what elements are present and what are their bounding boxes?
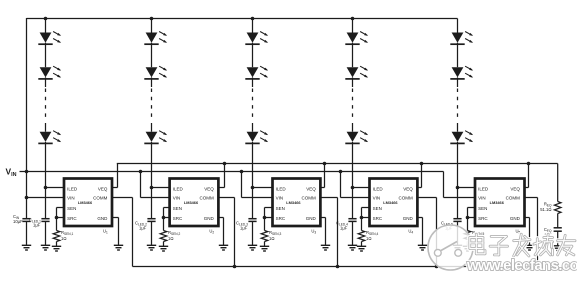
label U4 (408, 228, 413, 234)
wire COMM bus (133, 266, 538, 268)
svg-text:GND: GND (510, 216, 521, 221)
wire COMM pin U2 (218, 198, 234, 267)
wire ILED U1 (46, 187, 65, 189)
LED D3.2 (245, 66, 268, 79)
wire SRC to RSEN U1 (56, 218, 58, 231)
node VIN rail junction U2 (139, 170, 143, 174)
svg-text:COMM: COMM (302, 196, 316, 201)
node VIN junction U1 (25, 196, 29, 200)
node ILED junction U4 (351, 186, 355, 190)
svg-text:SEN: SEN (373, 206, 382, 211)
ground U5 GND (525, 245, 534, 250)
wire LED string 5 cathode to ILED (457, 142, 459, 188)
label U1 (103, 228, 108, 234)
svg-text:LM3466: LM3466 (184, 200, 199, 205)
IC U3 LM3466 (273, 179, 321, 227)
svg-text:1Ω: 1Ω (61, 236, 66, 241)
resistor RSEN,5 1ohm (464, 230, 484, 242)
wire (45, 77, 47, 87)
wire ILED U5 (458, 187, 476, 189)
wire COMM pin U3 (320, 198, 337, 267)
svg-text:VEQ: VEQ (403, 187, 413, 192)
wire dashed (more LEDs) string 3 (252, 89, 254, 122)
ground CLED,1 (41, 245, 50, 250)
svg-text:VEQ: VEQ (510, 187, 520, 192)
node VEQ bus junction U4 (420, 162, 424, 166)
wire (457, 221, 459, 245)
svg-text:VEQ: VEQ (98, 187, 108, 192)
node VEQ bus junction U2 (223, 162, 227, 166)
LED D2.2 (144, 66, 167, 79)
wire (151, 221, 153, 245)
LED D5.3 (450, 131, 473, 144)
node ILED junction U1 (44, 186, 48, 190)
wire (151, 123, 153, 132)
wire SEN pin U3 (265, 208, 273, 218)
wire SRC pin U5 (468, 217, 476, 219)
svg-text:ILED: ILED (373, 187, 384, 192)
svg-text:SRC: SRC (173, 216, 183, 221)
wire (457, 123, 459, 132)
ground RSEN,2 (159, 246, 168, 251)
capacitor CIN 10uF (13, 214, 31, 224)
wire LED string 4 cathode to ILED (352, 142, 354, 188)
LED D4.1 (345, 32, 368, 45)
wire (264, 242, 266, 247)
wire COMM pin U4 (417, 198, 436, 267)
wire SRC to RSEN U3 (264, 218, 266, 231)
svg-text:SEN: SEN (478, 206, 487, 211)
node top rail junction col2 (150, 17, 154, 21)
ground RSEN,1 (52, 246, 61, 251)
ground CIN (22, 245, 31, 250)
wire GND pin U2 (218, 218, 223, 246)
wire VEQ pin U2 (218, 164, 224, 188)
wire GND pin U4 (417, 218, 422, 246)
svg-text:LM3466: LM3466 (490, 200, 505, 205)
wire (252, 221, 254, 245)
wire VEQ pin U3 (320, 164, 324, 188)
ground CLED,4 (348, 245, 357, 250)
wire VEQ pin U5 (525, 164, 529, 188)
wire LED string 1 anode (45, 19, 47, 33)
wire VIN pin U2 (141, 172, 170, 198)
svg-text:VIN: VIN (173, 196, 181, 201)
wire SRC pin U4 (362, 217, 370, 219)
wire (252, 43, 254, 67)
svg-text:51.1Ω: 51.1Ω (540, 207, 551, 212)
wire (352, 77, 354, 87)
wire ILED node to CLED,2 (151, 188, 153, 219)
node SRC junction U2 (162, 216, 166, 220)
wire ILED node to CLED,3 (252, 188, 254, 219)
ground U2 GND (219, 245, 228, 250)
node top rail junction col4 (351, 17, 355, 21)
wire dashed (more LEDs) string 2 (151, 89, 153, 122)
svg-text:ILED: ILED (173, 187, 184, 192)
node top rail junction col3 (251, 17, 255, 21)
label U3 (311, 228, 316, 234)
wire (151, 77, 153, 87)
capacitor CLED,3 1uF (236, 219, 257, 231)
wire ILED node to CLED,5 (457, 188, 459, 219)
node VIN rail junction U4 (339, 170, 343, 174)
svg-text:ILED: ILED (67, 187, 78, 192)
ground RSEN,4 (357, 246, 366, 251)
capacitor CEQ 1uF (544, 227, 562, 237)
LED D2.1 (144, 32, 167, 45)
svg-text:ILED: ILED (478, 187, 489, 192)
svg-text:1Ω: 1Ω (366, 236, 371, 241)
capacitor CLED,5 1uF (441, 219, 462, 231)
node COMM bus junction U3 (336, 265, 340, 269)
IC U4 LM3466 (370, 179, 418, 227)
node ILED junction U2 (150, 186, 154, 190)
wire (557, 231, 559, 246)
ground CEQ (553, 246, 562, 251)
LED D4.2 (345, 66, 368, 79)
node ILED junction U5 (456, 186, 460, 190)
wire ILED U3 (253, 187, 273, 189)
wire SRC to RSEN U5 (467, 218, 469, 231)
svg-text:1Ω: 1Ω (269, 236, 274, 241)
wire (45, 123, 47, 132)
wire LED string 4 anode (352, 19, 354, 33)
svg-text:VIN: VIN (67, 196, 75, 201)
node COMM bus junction U2 (233, 265, 237, 269)
svg-text:LM3466: LM3466 (286, 200, 301, 205)
wire ILED U2 (152, 187, 170, 189)
svg-text:COMM: COMM (200, 196, 214, 201)
svg-text:VIN: VIN (276, 196, 284, 201)
LED D1.3 (38, 131, 61, 144)
label U5 (516, 228, 521, 234)
wire VEQ bus drop to REQ (557, 164, 559, 202)
svg-text:1Ω: 1Ω (168, 236, 173, 241)
svg-text:www.elecfans.com: www.elecfans.com (466, 258, 577, 274)
wire (26, 221, 28, 245)
node ILED junction U3 (251, 186, 255, 190)
wire VIN rail (20, 171, 444, 173)
node SRC junction U5 (466, 216, 470, 220)
wire SRC pin U3 (265, 217, 273, 219)
wire LED string 1 cathode to ILED (45, 142, 47, 188)
wire GND pin U1 (112, 218, 119, 246)
top anode supply rail wire (27, 18, 458, 20)
resistor RSEN,2 1ohm (160, 230, 180, 242)
wire ILED node to CLED,4 (352, 188, 354, 219)
svg-text:SRC: SRC (276, 216, 286, 221)
svg-text:SEN: SEN (173, 206, 182, 211)
ground CLED,3 (248, 245, 257, 250)
wire SEN pin U4 (362, 208, 370, 218)
LED D1.1 (38, 32, 61, 45)
svg-text:VIN: VIN (373, 196, 381, 201)
svg-text:SEN: SEN (276, 206, 285, 211)
ground CLED,2 (147, 245, 156, 250)
wire (151, 43, 153, 67)
wire (163, 242, 165, 247)
wire SRC pin U2 (164, 217, 170, 219)
LED D1.2 (38, 66, 61, 79)
wire (56, 242, 58, 247)
wire LED string 3 anode (252, 19, 254, 33)
watermark elecfans logo and text (428, 225, 577, 274)
svg-text:LM3466: LM3466 (383, 200, 398, 205)
ground U4 GND (418, 245, 427, 250)
wire VEQ pin U4 (417, 164, 421, 188)
svg-text:SEN: SEN (67, 206, 76, 211)
wire SRC pin U1 (57, 217, 65, 219)
wire (352, 221, 354, 245)
node VIN rail junction U3 (240, 170, 244, 174)
wire (457, 43, 459, 67)
LED D4.3 (345, 131, 368, 144)
wire SEN pin U5 (468, 208, 476, 218)
node VEQ bus junction U5 (527, 162, 531, 166)
wire LED string 3 cathode to ILED (252, 142, 254, 188)
node COMM bus junction U4 (435, 265, 439, 269)
wire GND pin U3 (320, 218, 325, 246)
wire dashed (more LEDs) string 4 (352, 89, 354, 122)
svg-text:10µF: 10µF (13, 219, 23, 224)
resistor REQ 51.1ohm (540, 201, 561, 213)
wire VIN pin U1 (27, 197, 65, 199)
wire (252, 123, 254, 132)
wire VIN rail drop to U5 (444, 172, 476, 198)
svg-text:VIN: VIN (478, 196, 486, 201)
IC U5 LM3466 (475, 179, 525, 227)
LED D5.2 (450, 66, 473, 79)
ground U1 GND (114, 245, 123, 250)
ground U3 GND (321, 245, 330, 250)
left VIN vertical rail wire (26, 18, 28, 219)
svg-text:LM3466: LM3466 (78, 200, 93, 205)
wire (45, 43, 47, 67)
wire SRC to RSEN U4 (361, 218, 363, 231)
svg-text:COMM: COMM (399, 196, 413, 201)
svg-text:SRC: SRC (478, 216, 488, 221)
wire (252, 77, 254, 87)
wire dashed (more LEDs) string 5 (457, 89, 459, 122)
svg-text:1µF: 1µF (33, 222, 41, 227)
wire LED string 2 anode (151, 19, 153, 33)
svg-text:1µF: 1µF (139, 226, 147, 231)
capacitor CLED,4 1uF (336, 219, 357, 231)
svg-text:VEQ: VEQ (204, 187, 214, 192)
wire (352, 43, 354, 67)
wire GND pin U5 (525, 218, 530, 246)
node VEQ bus junction U3 (323, 162, 327, 166)
wire (467, 242, 469, 247)
wire VEQ pin U1 (112, 164, 118, 188)
svg-text:SRC: SRC (67, 216, 77, 221)
node SRC junction U4 (360, 216, 364, 220)
LED D5.1 (450, 32, 473, 45)
label U2 (209, 228, 214, 234)
svg-text:1µF: 1µF (240, 226, 248, 231)
node SRC junction U3 (263, 216, 267, 220)
LED D3.3 (245, 131, 268, 144)
wire VIN pin U3 (242, 172, 273, 198)
wire SEN pin U1 (57, 208, 65, 218)
svg-text:GND: GND (306, 216, 317, 221)
wire SRC to RSEN U2 (163, 218, 165, 231)
wire (557, 214, 559, 228)
wire (45, 221, 47, 245)
svg-text:GND: GND (97, 216, 108, 221)
IC U1 LM3466 (64, 179, 112, 227)
svg-text:SRC: SRC (373, 216, 383, 221)
svg-text:GND: GND (403, 216, 414, 221)
node VIN label (6, 167, 17, 178)
wire (352, 123, 354, 132)
svg-text:COMM: COMM (93, 196, 107, 201)
wire dashed (more LEDs) string 1 (45, 89, 47, 122)
LED D2.3 (144, 131, 167, 144)
node top rail junction col1 (44, 17, 48, 21)
wire COMM pin U5 (525, 198, 538, 267)
node VIN/left-rail junction (25, 170, 29, 174)
wire VIN pin U4 (341, 172, 370, 198)
resistor RSEN,3 1ohm (261, 230, 281, 242)
svg-text:GND: GND (204, 216, 215, 221)
wire (457, 77, 459, 87)
svg-text:COMM: COMM (506, 196, 520, 201)
wire COMM pin U1 (112, 198, 133, 267)
ground CLED,5 (453, 245, 462, 250)
wire VEQ bus (117, 163, 558, 165)
IC U2 LM3466 (170, 179, 219, 227)
LED D3.1 (245, 32, 268, 45)
wire (361, 242, 363, 247)
wire SEN pin U2 (164, 208, 170, 218)
capacitor CLED,1 1uF (29, 217, 50, 227)
svg-text:1µF: 1µF (340, 226, 348, 231)
wire ILED U4 (353, 187, 370, 189)
capacitor CLED,2 1uF (135, 219, 156, 231)
resistor RSEN,4 1ohm (358, 230, 378, 242)
ground RSEN,3 (260, 246, 269, 251)
wire LED string 2 cathode to ILED (151, 142, 153, 188)
wire LED string 5 anode (457, 19, 459, 33)
resistor RSEN,1 1ohm (53, 230, 73, 242)
svg-text:VEQ: VEQ (306, 187, 316, 192)
wire ILED node to CLED,1 (45, 188, 47, 219)
ground RSEN,5 (463, 246, 472, 251)
node SRC junction U1 (55, 216, 59, 220)
svg-text:ILED: ILED (276, 187, 287, 192)
